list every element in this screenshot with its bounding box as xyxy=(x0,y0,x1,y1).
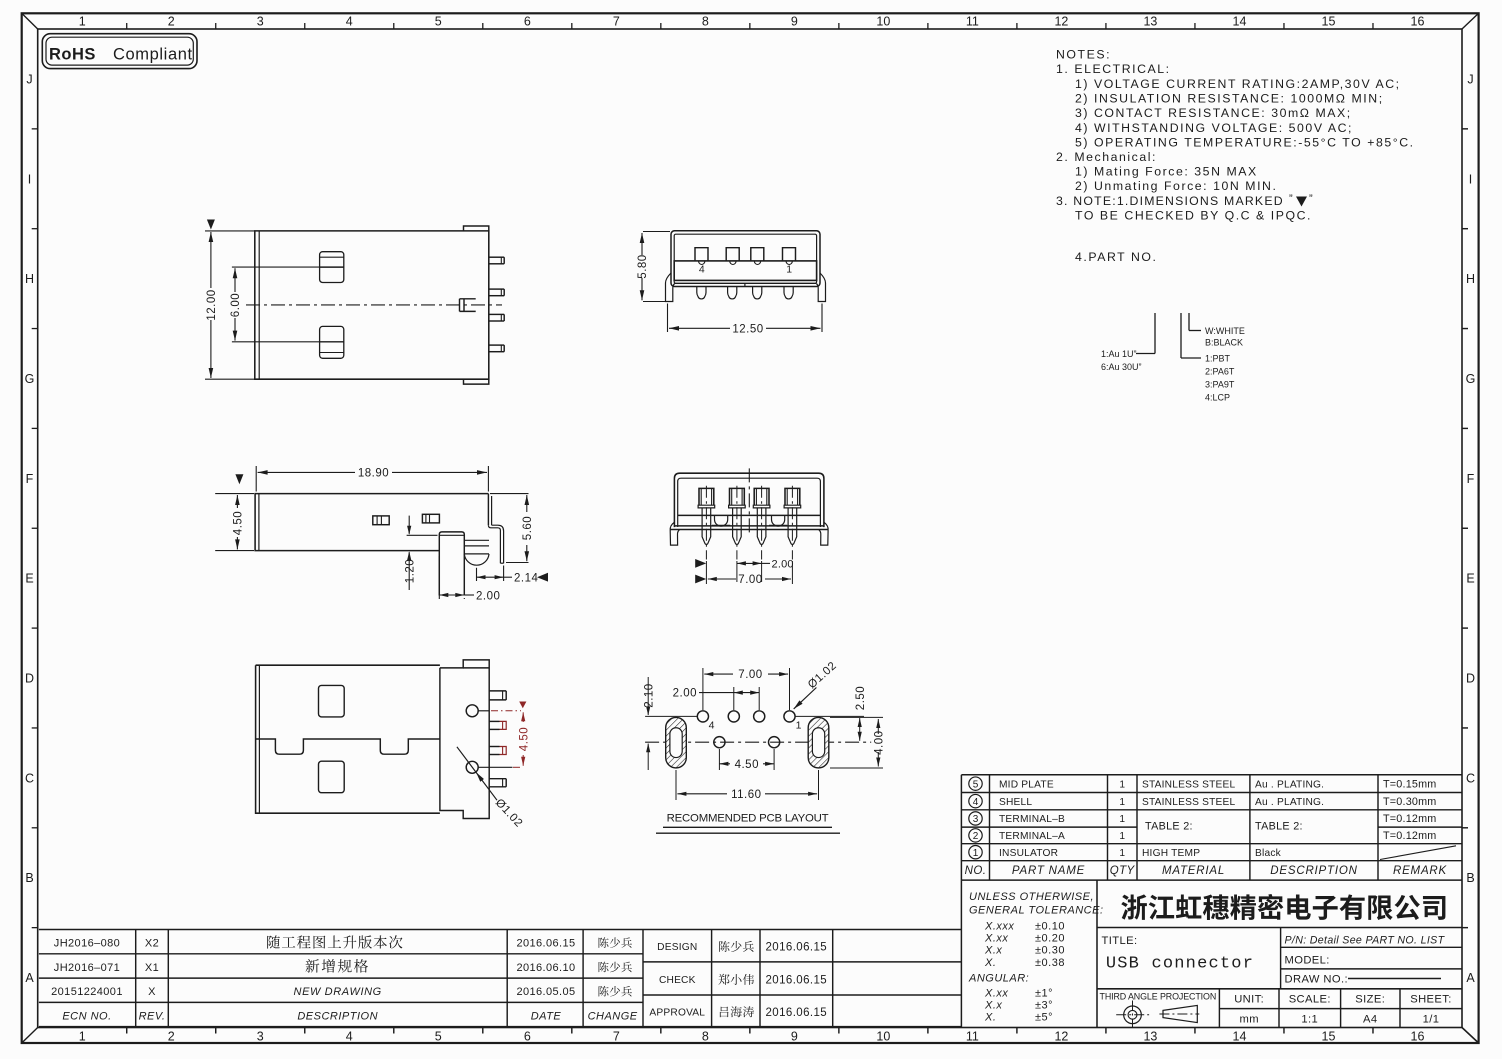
view 2 contact pads xyxy=(695,248,708,261)
svg-text:2.00: 2.00 xyxy=(476,590,500,602)
svg-text:6.00: 6.00 xyxy=(230,293,242,317)
svg-text:E: E xyxy=(1466,572,1474,586)
svg-text:REV.: REV. xyxy=(139,1010,166,1022)
svg-text:2) INSULATION RESISTANCE: 1000: 2) INSULATION RESISTANCE: 1000MΩ MIN; xyxy=(1075,92,1384,106)
view 1 centerline xyxy=(246,304,502,306)
view 4: rear view shell outline xyxy=(674,473,824,527)
svg-text:T=0.12mm: T=0.12mm xyxy=(1383,830,1437,842)
svg-text:7: 7 xyxy=(613,1030,620,1044)
projection symbol cone xyxy=(1163,1005,1197,1022)
svg-text:SHEET:: SHEET: xyxy=(1410,994,1452,1006)
svg-text:13: 13 xyxy=(1143,1030,1157,1044)
svg-text:2016.06.15: 2016.06.15 xyxy=(766,942,828,954)
svg-text:X.xx: X.xx xyxy=(984,988,1008,1000)
border tick marks xyxy=(126,23,128,29)
view 1 dimension 12.00 xyxy=(207,220,215,230)
svg-text:CHANGE: CHANGE xyxy=(588,1010,638,1022)
svg-text:6: 6 xyxy=(524,1030,531,1044)
view 1 shell front edge double line xyxy=(258,231,260,379)
svg-text:2016.06.15: 2016.06.15 xyxy=(766,1007,828,1019)
svg-text:T=0.15mm: T=0.15mm xyxy=(1383,778,1437,790)
svg-text:14: 14 xyxy=(1233,15,1247,29)
svg-text:2: 2 xyxy=(973,831,979,842)
svg-text:1) Mating Force: 35N MAX: 1) Mating Force: 35N MAX xyxy=(1075,165,1258,179)
view 6 dimension 2.00 xyxy=(733,687,735,710)
view 6 diameter leader 1.02 top xyxy=(794,688,817,709)
svg-text:DATE: DATE xyxy=(531,1010,562,1022)
svg-text:P/N: Detail See PART NO. LIST: P/N: Detail See PART NO. LIST xyxy=(1285,935,1446,947)
view 6 right oval slot hatched xyxy=(808,717,829,768)
svg-text:±0.20: ±0.20 xyxy=(1035,933,1065,945)
view 1 bottom-right board tab xyxy=(464,379,489,384)
parts table remark slash xyxy=(1380,846,1456,860)
svg-text:JH2016–071: JH2016–071 xyxy=(54,962,120,974)
svg-text:16: 16 xyxy=(1411,15,1425,29)
title block grid xyxy=(960,880,962,1027)
svg-text:7.00: 7.00 xyxy=(738,574,762,586)
view 3 front edge double line xyxy=(258,494,260,551)
view 5 red dimension 4.50 xyxy=(491,710,521,712)
svg-text:TERMINAL–B: TERMINAL–B xyxy=(999,814,1065,825)
svg-text:F: F xyxy=(1467,472,1475,486)
svg-text:5: 5 xyxy=(973,779,979,790)
svg-text:1:PBT: 1:PBT xyxy=(1205,354,1231,364)
svg-text:NO.: NO. xyxy=(965,865,987,877)
view 4 terminal posts and pins xyxy=(699,488,714,505)
svg-text:20151224001: 20151224001 xyxy=(51,986,123,998)
svg-text:7.00: 7.00 xyxy=(738,669,762,681)
svg-text:±0.30: ±0.30 xyxy=(1035,945,1065,957)
svg-text:1: 1 xyxy=(973,848,979,859)
svg-text:2: 2 xyxy=(168,15,175,29)
svg-text:HIGH TEMP: HIGH TEMP xyxy=(1142,848,1200,859)
svg-text:4.50: 4.50 xyxy=(735,759,759,771)
view 1 top-right board tab xyxy=(464,226,489,231)
svg-text:4: 4 xyxy=(346,15,353,29)
svg-text:4: 4 xyxy=(699,263,705,275)
svg-text:C: C xyxy=(25,771,34,785)
svg-text:TITLE:: TITLE: xyxy=(1102,935,1138,947)
svg-text:H: H xyxy=(25,272,34,286)
view 5 upper square hole xyxy=(319,685,345,717)
svg-text:”: ” xyxy=(1309,193,1313,205)
view 2 dimension 5.80 xyxy=(643,231,670,233)
view 6 dimension 4.00 xyxy=(830,716,883,718)
view 5 lower square hole xyxy=(319,761,345,793)
svg-text:1: 1 xyxy=(79,15,86,29)
svg-text:B: B xyxy=(25,871,33,885)
svg-text:DESIGN: DESIGN xyxy=(657,942,697,953)
view 6: PCB layout centerline xyxy=(645,741,871,743)
svg-text:1: 1 xyxy=(1119,848,1125,859)
svg-text:15: 15 xyxy=(1322,15,1336,29)
svg-text:2016.06.15: 2016.06.15 xyxy=(766,975,828,987)
view 4 shell bottom lines xyxy=(674,525,824,527)
view 5 four pins xyxy=(489,690,506,692)
svg-text:1: 1 xyxy=(79,1030,86,1044)
view 3 rear bent terminal xyxy=(487,494,489,526)
svg-text:X.xxx: X.xxx xyxy=(984,921,1014,933)
view 3: side view body outline xyxy=(255,494,488,551)
svg-text:4.PART NO.: 4.PART NO. xyxy=(1075,250,1157,264)
frame corner diagonals xyxy=(22,13,38,29)
svg-text:USB connector: USB connector xyxy=(1106,955,1254,974)
svg-text:1: 1 xyxy=(1119,779,1125,790)
svg-text:4:LCP: 4:LCP xyxy=(1205,393,1230,403)
svg-text:1: 1 xyxy=(786,263,792,275)
svg-text:15: 15 xyxy=(1322,1030,1336,1044)
svg-text:1:1: 1:1 xyxy=(1301,1013,1318,1025)
svg-text:E: E xyxy=(25,572,33,586)
svg-text:8: 8 xyxy=(702,1030,709,1044)
svg-text:X2: X2 xyxy=(145,938,159,950)
parts table circled item numbers xyxy=(969,777,982,790)
view 4 dimension 7.00 xyxy=(705,561,707,584)
svg-text:X.: X. xyxy=(984,1012,996,1024)
view 5 parting line with notches xyxy=(256,739,440,754)
svg-text:2016.05.05: 2016.05.05 xyxy=(516,986,575,998)
svg-text:W:WHITE: W:WHITE xyxy=(1205,326,1245,336)
svg-text:GENERAL TOLERANCE:: GENERAL TOLERANCE: xyxy=(969,905,1104,917)
svg-text:X: X xyxy=(148,986,156,998)
view 4 right leg xyxy=(819,522,828,545)
svg-text:10: 10 xyxy=(876,1030,890,1044)
svg-text:2016.06.15: 2016.06.15 xyxy=(516,938,575,950)
svg-text:3: 3 xyxy=(257,1030,264,1044)
svg-text:TABLE 2:: TABLE 2: xyxy=(1145,821,1193,833)
svg-text:2. Mechanical:: 2. Mechanical: xyxy=(1056,150,1157,164)
svg-text:”: ” xyxy=(1289,193,1293,205)
svg-text:4: 4 xyxy=(973,797,979,808)
svg-text:6:Au 30U”: 6:Au 30U” xyxy=(1101,362,1142,372)
svg-text:4) WITHSTANDING VOLTAGE: 500V: 4) WITHSTANDING VOLTAGE: 500V AC; xyxy=(1075,121,1353,135)
svg-text:STAINLESS STEEL: STAINLESS STEEL xyxy=(1142,797,1236,808)
svg-text:D: D xyxy=(1466,672,1475,686)
svg-text:PART NAME: PART NAME xyxy=(1012,865,1085,877)
svg-text:A: A xyxy=(25,971,34,985)
svg-text:UNLESS OTHERWISE,: UNLESS OTHERWISE, xyxy=(969,891,1094,903)
svg-text:DESCRIPTION: DESCRIPTION xyxy=(1270,865,1357,877)
svg-text:TO BE CHECKED BY Q.C & IPQC.: TO BE CHECKED BY Q.C & IPQC. xyxy=(1075,208,1312,222)
svg-text:±1°: ±1° xyxy=(1035,988,1053,1000)
svg-text:9: 9 xyxy=(791,15,798,29)
svg-text:G: G xyxy=(1466,372,1476,386)
view 2 right mounting leg xyxy=(817,273,826,302)
svg-text:X.x: X.x xyxy=(984,945,1002,957)
projection symbol circle xyxy=(1124,1006,1142,1024)
svg-text:RECOMMENDED PCB LAYOUT: RECOMMENDED PCB LAYOUT xyxy=(667,813,829,825)
svg-text:18.90: 18.90 xyxy=(358,467,389,479)
view 6 dimension 11.60 xyxy=(675,770,677,800)
svg-text:1: 1 xyxy=(1119,814,1125,825)
svg-text:5: 5 xyxy=(435,15,442,29)
view 3 checked mark for 4.50 xyxy=(235,474,243,484)
view 6 dimension 7.00 xyxy=(702,668,704,710)
view 2 shell inner wall xyxy=(674,234,816,283)
svg-text:5.80: 5.80 xyxy=(637,254,649,278)
svg-text:2:PA6T: 2:PA6T xyxy=(1205,367,1235,377)
svg-text:4.50: 4.50 xyxy=(233,511,245,535)
svg-text:5) OPERATING TEMPERATURE:-55°C: 5) OPERATING TEMPERATURE:-55°C TO +85°C. xyxy=(1075,135,1415,149)
svg-text:MID PLATE: MID PLATE xyxy=(999,779,1054,790)
view 6 left oval slot hatched xyxy=(666,717,687,768)
svg-text:ANGULAR:: ANGULAR: xyxy=(968,973,1029,985)
svg-text:MATERIAL: MATERIAL xyxy=(1162,865,1225,877)
svg-text:B:BLACK: B:BLACK xyxy=(1205,338,1243,348)
RoHS Compliant badge xyxy=(42,34,197,69)
svg-text:STAINLESS STEEL: STAINLESS STEEL xyxy=(1142,779,1236,790)
svg-text:I: I xyxy=(28,172,31,186)
svg-text:F: F xyxy=(26,472,34,486)
svg-text:1/1: 1/1 xyxy=(1423,1013,1440,1025)
view 2 dimension 12.50 xyxy=(667,304,669,333)
svg-text:G: G xyxy=(25,372,35,386)
view 6 dimension 2.50 xyxy=(795,715,864,717)
svg-text:Black: Black xyxy=(1255,848,1282,859)
svg-text:2.00: 2.00 xyxy=(673,688,697,700)
view 4 shell inner wall xyxy=(678,478,821,527)
svg-text:SHELL: SHELL xyxy=(999,797,1032,808)
view 6 dimension 2.10 xyxy=(645,715,697,717)
svg-text:DRAW NO.:: DRAW NO.: xyxy=(1285,974,1348,986)
view 6 pin holes top row xyxy=(697,711,708,722)
view 5 front edge double line xyxy=(258,665,260,813)
svg-text:T=0.30mm: T=0.30mm xyxy=(1383,796,1437,808)
view 2 tongue block xyxy=(674,261,816,281)
svg-text:14: 14 xyxy=(1233,1030,1247,1044)
svg-text:NOTES:: NOTES: xyxy=(1056,48,1111,62)
view 1: connector top view body outline xyxy=(255,231,489,379)
view 3 dimension 4.50 xyxy=(215,493,254,495)
svg-text:UNIT:: UNIT: xyxy=(1234,994,1264,1006)
svg-text:INSULATOR: INSULATOR xyxy=(999,848,1058,859)
svg-text:9: 9 xyxy=(791,1030,798,1044)
svg-text:4.50: 4.50 xyxy=(518,727,530,751)
svg-text:11.60: 11.60 xyxy=(731,789,761,801)
svg-text:8: 8 xyxy=(702,15,709,29)
svg-text:TERMINAL–A: TERMINAL–A xyxy=(999,831,1065,842)
svg-text:3. NOTE:1.DIMENSIONS MARKED: 3. NOTE:1.DIMENSIONS MARKED xyxy=(1056,194,1284,208)
view 4 left leg xyxy=(670,522,679,545)
svg-text:1:Au 1U”: 1:Au 1U” xyxy=(1101,349,1137,359)
svg-text:REMARK: REMARK xyxy=(1393,865,1448,877)
svg-text:2.10: 2.10 xyxy=(643,683,655,707)
svg-text:1: 1 xyxy=(1119,797,1125,808)
svg-text:3) CONTACT RESISTANCE: 30mΩ MA: 3) CONTACT RESISTANCE: 30mΩ MAX; xyxy=(1075,106,1352,120)
svg-text:2.50: 2.50 xyxy=(855,686,867,710)
svg-text:2: 2 xyxy=(168,1030,175,1044)
view 5 shell rear section xyxy=(440,660,489,819)
view 3 dimension 2.00 xyxy=(438,556,440,599)
view 3 stamped detail A xyxy=(373,516,389,525)
view 3 dimension 2.14 xyxy=(476,568,478,581)
view 3 dimension 5.60 xyxy=(490,493,529,495)
view 3 solder leg plate xyxy=(439,532,464,596)
parts list table grid xyxy=(961,774,1462,776)
svg-text:2016.06.10: 2016.06.10 xyxy=(516,962,575,974)
svg-text:±0.38: ±0.38 xyxy=(1035,957,1065,969)
svg-text:11: 11 xyxy=(966,15,979,29)
svg-text:X.: X. xyxy=(984,957,996,969)
view 3 terminal strips and J-bend xyxy=(464,539,489,541)
svg-text:Au . PLATING.: Au . PLATING. xyxy=(1255,779,1324,790)
svg-text:5.60: 5.60 xyxy=(522,516,534,540)
svg-text:12: 12 xyxy=(1054,1030,1068,1044)
view 3 dimension 18.90 xyxy=(255,466,257,492)
svg-text:12.50: 12.50 xyxy=(732,323,763,335)
svg-text:T=0.12mm: T=0.12mm xyxy=(1383,813,1437,825)
view 5 diameter leader 1.02 xyxy=(457,747,497,800)
view 1 upper latch hole xyxy=(320,252,344,283)
svg-text:3: 3 xyxy=(973,814,979,825)
company name chinese xyxy=(1121,894,1147,920)
svg-text:TABLE 2:: TABLE 2: xyxy=(1255,821,1303,833)
view 3 dimension 1.20 xyxy=(407,534,438,536)
view 1 retention clip detail xyxy=(460,298,476,300)
svg-text:JH2016–080: JH2016–080 xyxy=(54,938,120,950)
svg-text:I: I xyxy=(1469,172,1472,186)
view 5 hole circle upper xyxy=(466,705,478,717)
svg-text:RoHS: RoHS xyxy=(49,46,96,64)
svg-text:1.20: 1.20 xyxy=(404,559,416,583)
svg-text:16: 16 xyxy=(1411,1030,1425,1044)
svg-text:12.00: 12.00 xyxy=(206,289,218,320)
svg-text:4: 4 xyxy=(346,1030,353,1044)
view 2 left mounting leg xyxy=(666,273,675,302)
view 4 vertical centerline xyxy=(748,468,750,535)
view 1 four terminal pins right side xyxy=(489,256,504,258)
svg-text:1: 1 xyxy=(1119,831,1125,842)
svg-text:X.xx: X.xx xyxy=(984,933,1008,945)
svg-text:APPROVAL: APPROVAL xyxy=(649,1007,705,1018)
svg-text:10: 10 xyxy=(876,15,890,29)
svg-text:CHECK: CHECK xyxy=(659,975,696,986)
svg-text:1: 1 xyxy=(796,720,802,732)
svg-text:13: 13 xyxy=(1143,15,1157,29)
svg-text:1) VOLTAGE CURRENT RATING:2AMP: 1) VOLTAGE CURRENT RATING:2AMP,30V AC; xyxy=(1075,77,1401,91)
revision table grid xyxy=(39,929,962,931)
view 4 tongue line xyxy=(678,514,821,516)
svg-text:6: 6 xyxy=(524,15,531,29)
view 6 dimension 4.50 xyxy=(718,749,720,770)
view 5: bottom view body outline xyxy=(256,665,440,813)
svg-text:1. ELECTRICAL:: 1. ELECTRICAL: xyxy=(1056,62,1171,76)
svg-text:A4: A4 xyxy=(1363,1013,1377,1025)
view 1 dimension 6.00 xyxy=(232,266,320,268)
view 5 hole circle lower xyxy=(466,761,478,773)
svg-text:X1: X1 xyxy=(145,962,159,974)
svg-text:2.14: 2.14 xyxy=(514,572,538,584)
view 2 bottom seam tick xyxy=(744,283,746,286)
svg-text:NEW DRAWING: NEW DRAWING xyxy=(294,986,382,998)
view 1 lower latch hole xyxy=(320,326,344,358)
svg-text:A: A xyxy=(1466,971,1475,985)
svg-text:C: C xyxy=(1466,771,1475,785)
svg-text:±3°: ±3° xyxy=(1035,1000,1053,1012)
svg-text:7: 7 xyxy=(613,15,620,29)
svg-text:J: J xyxy=(1467,72,1473,86)
svg-text:DESCRIPTION: DESCRIPTION xyxy=(297,1010,378,1022)
svg-text:11: 11 xyxy=(966,1030,979,1044)
svg-text:2) Unmating Force: 10N MIN.: 2) Unmating Force: 10N MIN. xyxy=(1075,179,1277,193)
decoder leader lines xyxy=(1136,353,1155,355)
svg-text:12: 12 xyxy=(1054,15,1068,29)
svg-text:4: 4 xyxy=(709,720,715,732)
svg-text:±5°: ±5° xyxy=(1035,1012,1053,1024)
svg-text:5: 5 xyxy=(435,1030,442,1044)
svg-text:3: 3 xyxy=(257,15,264,29)
svg-text:H: H xyxy=(1466,272,1475,286)
svg-text:MODEL:: MODEL: xyxy=(1285,955,1330,967)
svg-text:2.00: 2.00 xyxy=(772,559,794,571)
svg-text:mm: mm xyxy=(1239,1013,1258,1025)
svg-text:QTY: QTY xyxy=(1110,865,1136,877)
view 4 U-cutouts in tongue xyxy=(715,515,728,526)
svg-text:THIRD ANGLE PROJECTION: THIRD ANGLE PROJECTION xyxy=(1100,992,1217,1002)
view 6 pin holes bottom row xyxy=(714,737,725,748)
svg-text:ECN NO.: ECN NO. xyxy=(62,1010,111,1022)
svg-text:Au . PLATING.: Au . PLATING. xyxy=(1255,797,1324,808)
svg-text:B: B xyxy=(1466,871,1474,885)
view 3 stamped detail B xyxy=(422,514,439,523)
view 2 four solder pins xyxy=(697,287,706,299)
svg-text:J: J xyxy=(26,72,32,86)
svg-text:SCALE:: SCALE: xyxy=(1289,994,1331,1006)
view 5 shell top edge under tab xyxy=(463,667,489,669)
svg-text:D: D xyxy=(25,672,34,686)
svg-text:Compliant: Compliant xyxy=(113,46,193,64)
svg-text:X.x: X.x xyxy=(984,1000,1002,1012)
view 4 dimension 2.00 xyxy=(736,561,738,582)
svg-text:4.00: 4.00 xyxy=(873,731,885,755)
svg-text:3:PA9T: 3:PA9T xyxy=(1205,380,1235,390)
view 2: front view shell outline xyxy=(671,231,820,287)
svg-text:SIZE:: SIZE: xyxy=(1355,994,1385,1006)
svg-text:±0.10: ±0.10 xyxy=(1035,921,1065,933)
